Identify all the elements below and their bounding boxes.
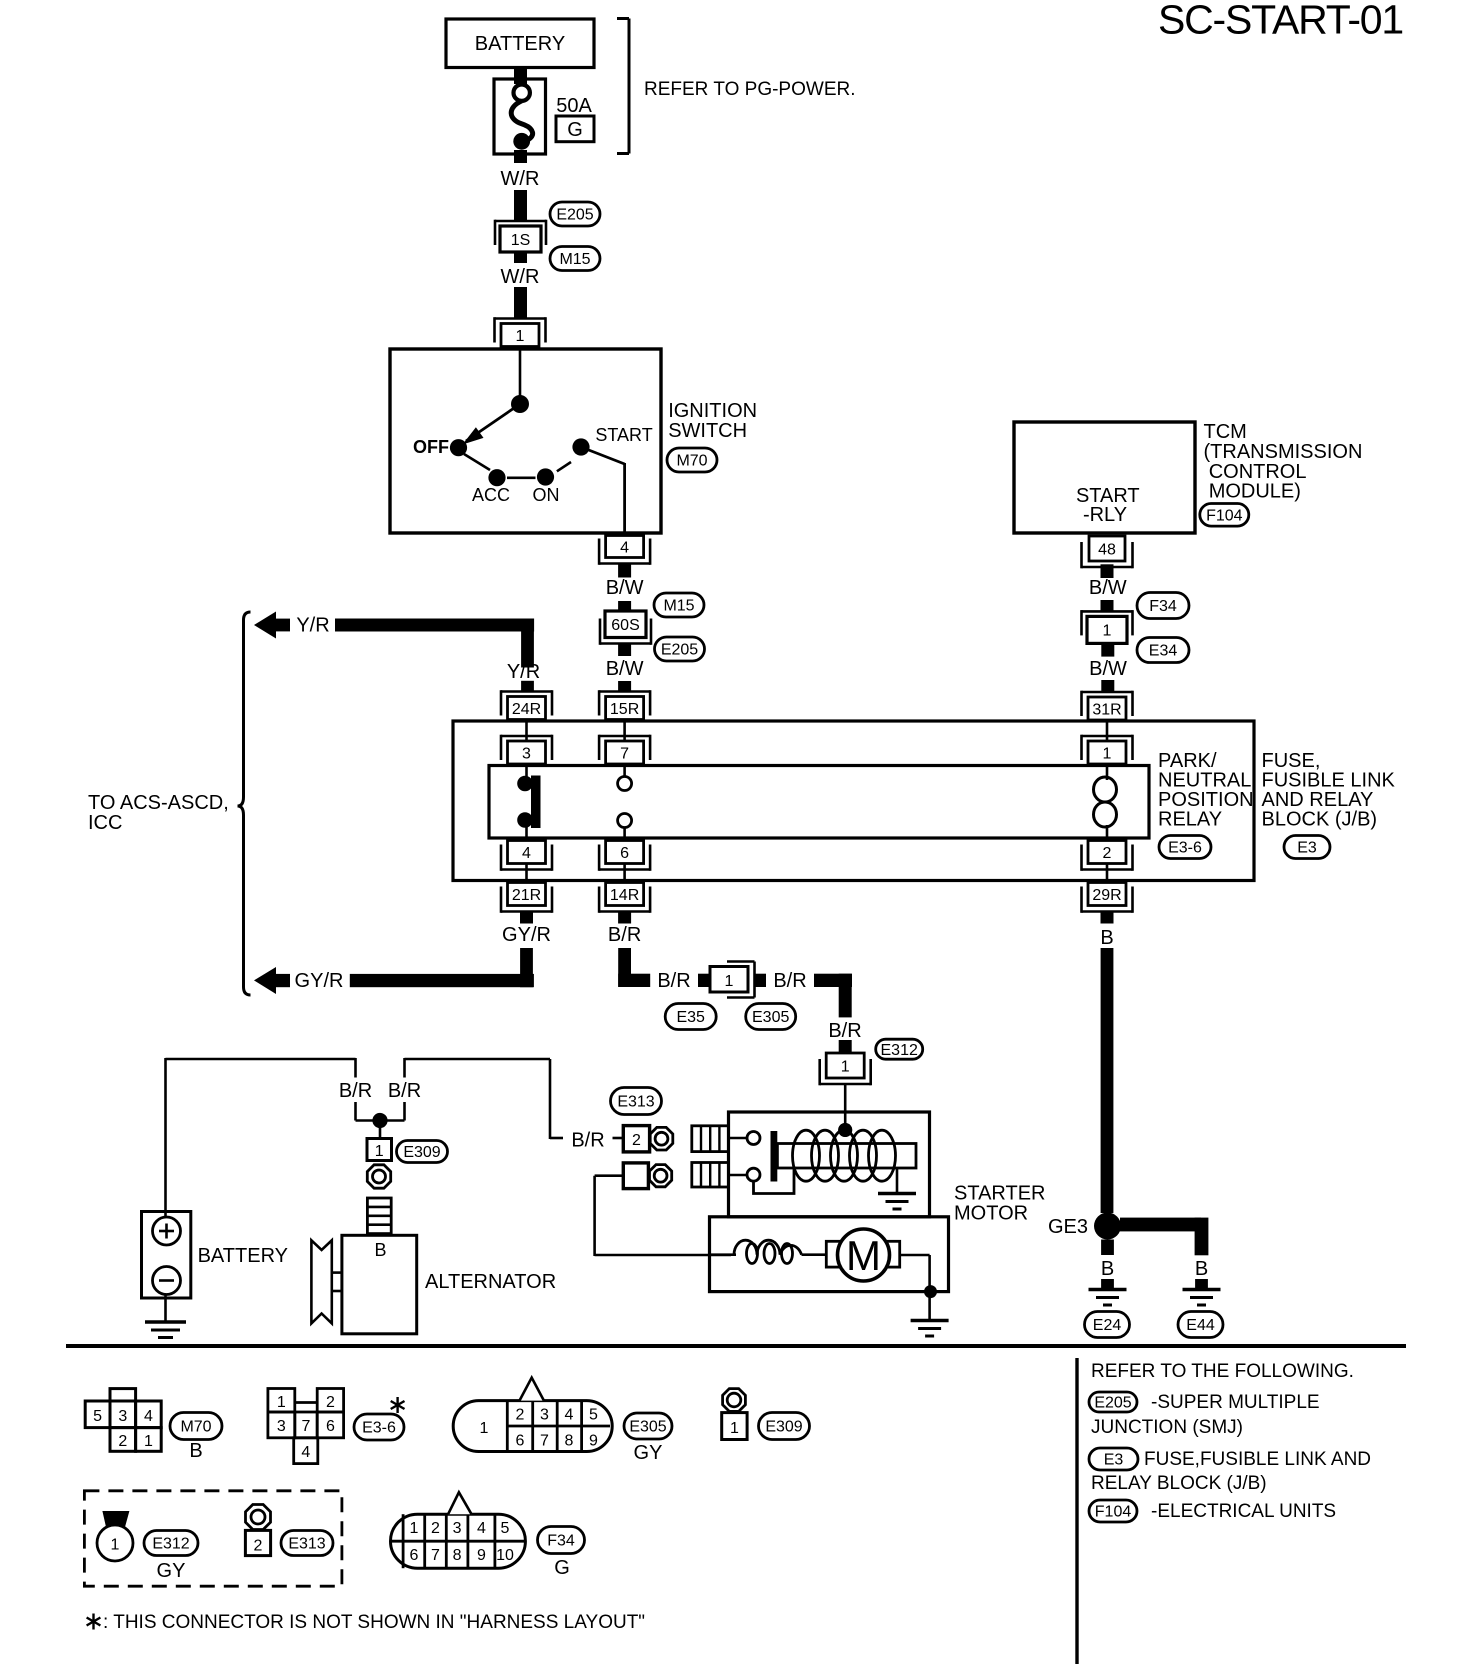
svg-text:2: 2 bbox=[1103, 845, 1112, 862]
svg-text:E312: E312 bbox=[152, 1536, 189, 1553]
svg-text:E44: E44 bbox=[1186, 1317, 1215, 1334]
svg-text:MODULE): MODULE) bbox=[1209, 481, 1301, 503]
svg-text:1: 1 bbox=[1103, 623, 1112, 640]
svg-text:B: B bbox=[374, 1240, 386, 1260]
svg-text:B/R: B/R bbox=[608, 924, 641, 946]
svg-text:BATTERY: BATTERY bbox=[475, 33, 565, 55]
svg-text:2: 2 bbox=[516, 1407, 525, 1424]
svg-text:STARTER: STARTER bbox=[954, 1183, 1046, 1205]
svg-text:1: 1 bbox=[841, 1058, 850, 1075]
svg-text:4: 4 bbox=[477, 1520, 486, 1537]
svg-text:B/R: B/R bbox=[339, 1080, 372, 1102]
svg-text:W/R: W/R bbox=[501, 266, 540, 288]
svg-text:E305: E305 bbox=[752, 1009, 789, 1026]
svg-text:TO ACS-ASCD,: TO ACS-ASCD, bbox=[88, 792, 229, 814]
svg-text:G: G bbox=[567, 119, 583, 141]
svg-text:E3: E3 bbox=[1104, 1452, 1124, 1469]
svg-text:REFER TO THE FOLLOWING.: REFER TO THE FOLLOWING. bbox=[1091, 1361, 1354, 1382]
svg-text:B: B bbox=[1100, 927, 1113, 949]
svg-text:B: B bbox=[189, 1440, 202, 1462]
svg-text:2: 2 bbox=[431, 1520, 440, 1537]
svg-text:M15: M15 bbox=[663, 598, 694, 615]
svg-text:B/R: B/R bbox=[828, 1020, 861, 1042]
svg-text:7: 7 bbox=[302, 1418, 311, 1435]
svg-text:E205: E205 bbox=[1094, 1395, 1131, 1412]
svg-text:10: 10 bbox=[496, 1547, 514, 1564]
svg-text:-SUPER MULTIPLE: -SUPER MULTIPLE bbox=[1151, 1392, 1320, 1413]
svg-text:ICC: ICC bbox=[88, 812, 122, 834]
svg-text:E313: E313 bbox=[288, 1536, 325, 1553]
svg-text:G: G bbox=[554, 1557, 570, 1579]
svg-text:E24: E24 bbox=[1093, 1317, 1122, 1334]
svg-text:ON: ON bbox=[533, 485, 560, 505]
svg-text:JUNCTION (SMJ): JUNCTION (SMJ) bbox=[1091, 1417, 1243, 1438]
svg-text:1S: 1S bbox=[511, 232, 531, 249]
svg-text:2: 2 bbox=[326, 1394, 335, 1411]
svg-text:E309: E309 bbox=[403, 1144, 440, 1161]
svg-text:1: 1 bbox=[111, 1537, 120, 1554]
svg-text:SWITCH: SWITCH bbox=[668, 420, 747, 442]
svg-text:4: 4 bbox=[620, 539, 629, 556]
svg-text:6: 6 bbox=[409, 1547, 418, 1564]
svg-text:4: 4 bbox=[301, 1444, 310, 1461]
svg-text:1: 1 bbox=[480, 1420, 489, 1437]
svg-text:3: 3 bbox=[453, 1520, 462, 1537]
svg-text:1: 1 bbox=[1103, 745, 1112, 762]
svg-text:M70: M70 bbox=[180, 1419, 211, 1436]
svg-text:GY: GY bbox=[634, 1442, 663, 1464]
svg-text:7: 7 bbox=[431, 1547, 440, 1564]
svg-text:5: 5 bbox=[589, 1407, 598, 1424]
svg-text:B/W: B/W bbox=[1089, 577, 1127, 599]
svg-text:2: 2 bbox=[632, 1132, 641, 1149]
svg-text:B/R: B/R bbox=[571, 1130, 604, 1152]
svg-text:4: 4 bbox=[565, 1407, 574, 1424]
svg-text:-RLY: -RLY bbox=[1083, 504, 1127, 526]
svg-text:GY: GY bbox=[157, 1560, 186, 1582]
svg-text:B/R: B/R bbox=[388, 1080, 421, 1102]
svg-text:F34: F34 bbox=[1149, 598, 1177, 615]
svg-text:7: 7 bbox=[540, 1433, 549, 1450]
svg-text:E3: E3 bbox=[1297, 840, 1317, 857]
svg-text:1: 1 bbox=[730, 1420, 739, 1437]
svg-text:E309: E309 bbox=[765, 1419, 802, 1436]
svg-text:4: 4 bbox=[144, 1408, 153, 1425]
svg-text:F104: F104 bbox=[1206, 507, 1243, 524]
svg-text:E313: E313 bbox=[617, 1094, 654, 1111]
svg-text:6: 6 bbox=[516, 1433, 525, 1450]
svg-text:8: 8 bbox=[453, 1547, 462, 1564]
svg-text:BATTERY: BATTERY bbox=[198, 1245, 288, 1267]
svg-text:E3-6: E3-6 bbox=[1168, 840, 1202, 857]
svg-text:B: B bbox=[1101, 1258, 1114, 1280]
svg-text:OFF: OFF bbox=[413, 437, 449, 457]
svg-text:1: 1 bbox=[144, 1433, 153, 1450]
svg-text:7: 7 bbox=[620, 745, 629, 762]
svg-text:3: 3 bbox=[118, 1408, 127, 1425]
svg-text:TCM: TCM bbox=[1204, 421, 1247, 443]
svg-text:START: START bbox=[595, 425, 652, 445]
svg-text:F34: F34 bbox=[547, 1533, 575, 1550]
svg-text:60S: 60S bbox=[611, 617, 639, 634]
svg-text:B/W: B/W bbox=[1089, 658, 1127, 680]
svg-text:Y/R: Y/R bbox=[296, 615, 329, 637]
svg-text:48: 48 bbox=[1098, 541, 1116, 558]
svg-text:RELAY BLOCK (J/B): RELAY BLOCK (J/B) bbox=[1091, 1473, 1267, 1494]
svg-text:GE3: GE3 bbox=[1048, 1216, 1088, 1238]
svg-text:SC-START-01: SC-START-01 bbox=[1158, 0, 1403, 43]
svg-text:9: 9 bbox=[477, 1547, 486, 1564]
svg-text:GY/R: GY/R bbox=[502, 924, 551, 946]
svg-text:1: 1 bbox=[409, 1520, 418, 1537]
svg-text:ALTERNATOR: ALTERNATOR bbox=[425, 1271, 556, 1293]
svg-text:E35: E35 bbox=[676, 1009, 705, 1026]
svg-text:MOTOR: MOTOR bbox=[954, 1203, 1028, 1225]
svg-text:15R: 15R bbox=[610, 701, 639, 718]
svg-text:29R: 29R bbox=[1092, 887, 1121, 904]
svg-text:5: 5 bbox=[93, 1408, 102, 1425]
svg-text:REFER TO PG-POWER.: REFER TO PG-POWER. bbox=[644, 79, 856, 100]
svg-text:M70: M70 bbox=[676, 453, 707, 470]
svg-text:1: 1 bbox=[516, 328, 525, 345]
svg-text:-ELECTRICAL UNITS: -ELECTRICAL UNITS bbox=[1151, 1501, 1336, 1522]
svg-text:E205: E205 bbox=[556, 207, 593, 224]
svg-text:14R: 14R bbox=[610, 887, 639, 904]
svg-text:5: 5 bbox=[501, 1520, 510, 1537]
svg-text:E205: E205 bbox=[661, 642, 698, 659]
svg-text:2: 2 bbox=[254, 1538, 263, 1555]
svg-text:M: M bbox=[846, 1232, 881, 1279]
svg-text:B/W: B/W bbox=[606, 658, 644, 680]
svg-text:50A: 50A bbox=[556, 95, 592, 117]
svg-text:E34: E34 bbox=[1149, 643, 1178, 660]
svg-text:1: 1 bbox=[725, 973, 734, 990]
svg-text:(TRANSMISSION: (TRANSMISSION bbox=[1204, 441, 1363, 463]
svg-text:6: 6 bbox=[326, 1418, 335, 1435]
svg-text:M15: M15 bbox=[559, 251, 590, 268]
svg-text:B/R: B/R bbox=[657, 970, 690, 992]
svg-text:B/W: B/W bbox=[606, 577, 644, 599]
svg-text:ACC: ACC bbox=[472, 485, 510, 505]
svg-text:31R: 31R bbox=[1092, 701, 1121, 718]
svg-text:B/R: B/R bbox=[773, 970, 806, 992]
svg-text:FUSE,FUSIBLE LINK AND: FUSE,FUSIBLE LINK AND bbox=[1144, 1449, 1371, 1470]
svg-text:24R: 24R bbox=[512, 701, 541, 718]
svg-text:E305: E305 bbox=[629, 1419, 666, 1436]
svg-text:2: 2 bbox=[118, 1433, 127, 1450]
svg-text:6: 6 bbox=[620, 845, 629, 862]
svg-text:IGNITION: IGNITION bbox=[668, 400, 757, 422]
svg-text:3: 3 bbox=[277, 1418, 286, 1435]
svg-text:: THIS CONNECTOR IS NOT SHOWN: : THIS CONNECTOR IS NOT SHOWN IN "HARNES… bbox=[103, 1612, 645, 1633]
svg-text:4: 4 bbox=[522, 845, 531, 862]
svg-text:9: 9 bbox=[589, 1433, 598, 1450]
svg-text:RELAY: RELAY bbox=[1158, 809, 1222, 831]
svg-text:W/R: W/R bbox=[501, 168, 540, 190]
svg-text:1: 1 bbox=[375, 1143, 384, 1160]
svg-text:F104: F104 bbox=[1095, 1504, 1132, 1521]
svg-text:B: B bbox=[1195, 1258, 1208, 1280]
svg-text:Y/R: Y/R bbox=[507, 661, 540, 683]
svg-text:21R: 21R bbox=[512, 887, 541, 904]
svg-text:1: 1 bbox=[277, 1394, 286, 1411]
svg-text:E312: E312 bbox=[881, 1042, 918, 1059]
svg-text:8: 8 bbox=[565, 1433, 574, 1450]
svg-text:GY/R: GY/R bbox=[295, 970, 344, 992]
svg-text:3: 3 bbox=[522, 745, 531, 762]
svg-text:BLOCK (J/B): BLOCK (J/B) bbox=[1262, 809, 1378, 831]
svg-text:E3-6: E3-6 bbox=[362, 1420, 396, 1437]
svg-text:3: 3 bbox=[540, 1407, 549, 1424]
